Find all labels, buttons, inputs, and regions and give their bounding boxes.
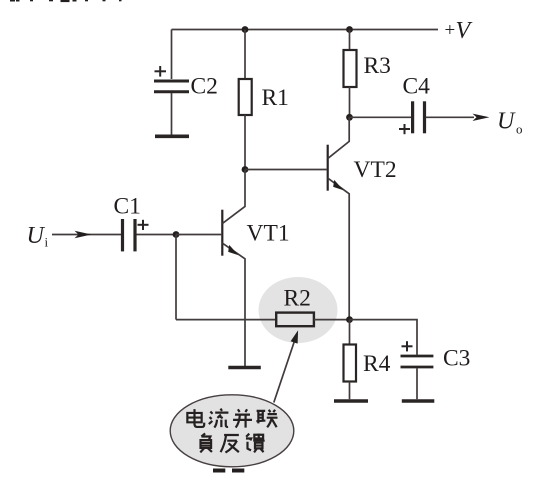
callout ellipse (feedback annotation) <box>170 395 294 467</box>
svg-text:V: V <box>456 18 473 44</box>
svg-text:U: U <box>497 109 516 135</box>
wire: input lead <box>52 234 121 236</box>
transistor VT1 emitter <box>222 243 245 366</box>
ground (VT1 emitter) <box>228 366 260 370</box>
ground (C2) <box>155 135 189 139</box>
capacitor C3 plates <box>401 356 434 367</box>
svg-text:+: + <box>445 20 456 41</box>
wire: feedback run to R2 <box>176 319 276 321</box>
wire: C2 branch from rail down to C2 top plate <box>171 30 173 80</box>
wire: node right and down to C3 <box>350 320 418 355</box>
wire: R1 bottom to VT1 collector node <box>244 115 246 170</box>
callout arrow line to R2 <box>274 337 296 403</box>
resistor R1 <box>239 79 252 115</box>
transistor VT2 emitter <box>328 178 350 320</box>
svg-text:VT1: VT1 <box>247 221 290 247</box>
transistor VT1 emitter arrow <box>228 245 238 255</box>
annotation text line 1: 电流并联 <box>187 409 277 428</box>
transistor VT1 base bar <box>221 210 223 256</box>
capacitor C1 plates <box>123 219 136 251</box>
node: rail junction at R3 <box>346 26 353 33</box>
input arrowhead <box>75 231 92 238</box>
annotation text line 2: 负反馈 <box>200 433 264 452</box>
svg-text:R3: R3 <box>364 53 391 79</box>
svg-text:R4: R4 <box>363 351 391 377</box>
node: rail junction at R1 <box>242 26 249 33</box>
wire: R2 to emitter node <box>314 319 350 321</box>
svg-text:U: U <box>27 223 46 249</box>
resistor R3 <box>344 50 357 87</box>
transistor VT1 collector <box>222 170 245 224</box>
ground (C3) <box>402 399 435 403</box>
transistor VT2 collector <box>328 117 350 158</box>
capacitor C2 plates <box>154 81 189 92</box>
wire: rail to R3 top <box>349 30 351 51</box>
svg-text:R1: R1 <box>262 85 289 111</box>
wire: node down to R4 <box>349 320 351 345</box>
wire: C1 to input node <box>137 234 177 236</box>
callout arrowhead <box>291 330 299 343</box>
wire: feedback branch down from input node <box>175 235 177 320</box>
node: VT1 collector / VT2 base junction <box>242 166 249 173</box>
capacitor C4 plus sign <box>399 124 410 134</box>
node: VT2 emitter / R4 / C3 junction <box>346 316 353 323</box>
svg-text:R2: R2 <box>284 286 311 312</box>
svg-text:VT2: VT2 <box>354 157 397 183</box>
wire: +V supply rail <box>172 29 439 31</box>
wire: C4 to output arrow <box>426 116 474 118</box>
wire: C2 bottom plate to ground <box>171 93 173 135</box>
capacitor C1 plus sign <box>138 220 149 230</box>
svg-text:i: i <box>45 235 49 250</box>
resistor R4 <box>344 345 357 382</box>
svg-text:C1: C1 <box>114 193 141 219</box>
svg-text:o: o <box>516 122 523 137</box>
capacitor C4 plates <box>413 101 425 133</box>
cropped caption text fragments at top edge <box>10 0 122 2</box>
wire: output node to C4 <box>350 116 412 118</box>
wire: input node to VT1 base <box>176 234 221 236</box>
wire: R3 bottom to output node <box>349 87 351 117</box>
resistor R2 <box>276 313 314 327</box>
wire: R4 bottom to ground <box>349 382 351 400</box>
ground (R4) <box>334 399 368 403</box>
transistor VT2 base bar <box>327 145 329 191</box>
node: VT2 collector / output junction <box>346 114 353 121</box>
transistor VT2 emitter arrow <box>333 180 343 190</box>
wire: C3 bottom plate to ground <box>416 368 418 399</box>
wire: junction to VT2 base <box>245 169 327 171</box>
wire: rail to R1 top <box>244 30 246 80</box>
capacitor C2 plus sign <box>155 66 167 77</box>
gray highlight circle on R2 <box>259 277 338 343</box>
output arrowhead <box>473 114 490 121</box>
capacitor C3 plus sign <box>402 341 413 351</box>
svg-text:C4: C4 <box>403 74 431 100</box>
svg-text:C3: C3 <box>443 345 470 371</box>
svg-text:C2: C2 <box>191 74 218 100</box>
cropped caption text fragments at bottom edge <box>213 469 244 473</box>
node: VT1 base / feedback junction <box>173 231 180 238</box>
